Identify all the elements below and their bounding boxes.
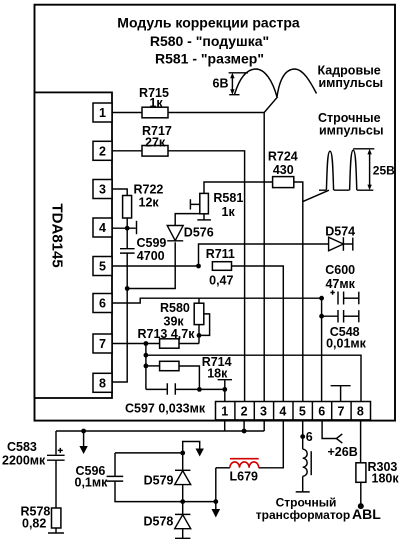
junction L679 left leg bbox=[213, 499, 218, 504]
wire R303 to ABL bbox=[360, 482, 362, 506]
wire connector 1-3 bottom bus bbox=[56, 421, 264, 432]
svg-text:430: 430 bbox=[273, 163, 294, 177]
pin 3 bbox=[93, 180, 112, 199]
wire bus to connector 8 bbox=[146, 355, 361, 401]
svg-text:27к: 27к bbox=[145, 135, 166, 149]
wire left bus column bbox=[145, 344, 147, 390]
wire D579 to D578 bbox=[182, 502, 184, 515]
wire pin3 to R722 bbox=[112, 189, 127, 196]
svg-text:8: 8 bbox=[99, 377, 106, 391]
pin 2 bbox=[93, 141, 112, 160]
ground under R581 bbox=[197, 219, 211, 221]
junction bus column dots bbox=[144, 341, 149, 346]
terminal over connector 7 bbox=[331, 386, 351, 402]
wire bus to R714 bbox=[146, 365, 160, 367]
svg-text:D574: D574 bbox=[325, 225, 355, 239]
wire C596/D579 top node bbox=[115, 452, 183, 454]
wire connector 5 to transformer bbox=[302, 421, 304, 450]
arrow to deflection mid bbox=[183, 442, 200, 453]
svg-text:4700: 4700 bbox=[137, 249, 165, 263]
resistor R711 bbox=[206, 247, 235, 287]
line pulses waveform bbox=[318, 111, 395, 190]
junction R714/C597 bbox=[197, 387, 202, 392]
svg-text:2: 2 bbox=[99, 145, 106, 159]
svg-text:1к: 1к bbox=[149, 96, 163, 110]
svg-text:6В: 6В bbox=[213, 77, 229, 91]
IC U1 TDA8145 bbox=[35, 92, 113, 398]
capacitor C599 bbox=[120, 236, 166, 263]
wire pin4 bbox=[112, 227, 136, 229]
resistor R715 bbox=[139, 86, 169, 118]
junction C600 node bbox=[319, 296, 324, 301]
connector X1 row bbox=[216, 402, 371, 420]
junction transformer pin6 bbox=[300, 434, 305, 439]
resistor R713 bbox=[138, 327, 196, 348]
inductor L679 bbox=[216, 459, 259, 484]
wire R713 right to R580 bbox=[179, 343, 199, 345]
svg-text:импульсы: импульсы bbox=[319, 124, 384, 138]
junction R580 wiper bbox=[197, 333, 202, 338]
wire R714 right down to C597 wire bbox=[179, 366, 199, 389]
wire R580 bottom to R713 bbox=[198, 325, 200, 344]
wire R722 bottom / C599 top lead bbox=[126, 218, 128, 248]
svg-text:TDA8145: TDA8145 bbox=[49, 204, 66, 268]
frame pulses waveform bbox=[213, 64, 384, 98]
capacitor C596 bbox=[75, 453, 124, 490]
pointer to frame waveform bbox=[264, 97, 277, 113]
resistor R724 bbox=[268, 150, 298, 188]
svg-text:R581 - "размер": R581 - "размер" bbox=[155, 51, 264, 67]
svg-text:+26В: +26В bbox=[328, 445, 358, 459]
trimmer R580 bbox=[160, 298, 210, 335]
junction pin4/R722 bbox=[125, 226, 130, 231]
svg-text:7: 7 bbox=[99, 337, 106, 351]
arrow to deflection right bbox=[215, 502, 217, 510]
svg-text:1к: 1к bbox=[222, 205, 236, 219]
pin 5 bbox=[93, 257, 112, 276]
junction D579/D578 bbox=[180, 499, 185, 504]
terminal over connector 1 bbox=[218, 380, 232, 402]
resistor R303 bbox=[356, 460, 399, 486]
wire pin5 to R711 node bbox=[112, 265, 199, 267]
arrow to deflection left bbox=[83, 431, 85, 447]
wire node down to pin8 bbox=[112, 289, 127, 383]
svg-text:R580: R580 bbox=[160, 301, 190, 315]
wire C600 node down to connector 6 bbox=[321, 298, 323, 401]
wire C596 bottom to D-node bbox=[115, 481, 216, 502]
svg-text:5: 5 bbox=[99, 260, 106, 274]
capacitor C548 bbox=[322, 310, 367, 351]
resistor R722 bbox=[123, 183, 164, 219]
junction pin5 node bbox=[196, 264, 201, 269]
wire connector 8 to R303 bbox=[360, 421, 362, 463]
svg-text:R581: R581 bbox=[213, 191, 243, 205]
svg-text:180к: 180к bbox=[372, 472, 400, 486]
svg-text:D576: D576 bbox=[184, 226, 214, 240]
svg-text:2: 2 bbox=[241, 404, 248, 418]
svg-text:6: 6 bbox=[99, 297, 106, 311]
diode D578 bbox=[144, 514, 191, 538]
svg-text:0,01мк: 0,01мк bbox=[326, 337, 367, 351]
svg-text:1: 1 bbox=[221, 404, 228, 418]
junction bottom bus bbox=[242, 429, 247, 434]
terminal bar after D574 bbox=[352, 238, 354, 251]
module boundary bbox=[35, 5, 396, 421]
pin 6 bbox=[93, 294, 112, 313]
svg-text:импульсы: импульсы bbox=[319, 76, 384, 90]
svg-text:18к: 18к bbox=[207, 367, 228, 381]
svg-text:D578: D578 bbox=[144, 515, 174, 529]
junction C599/D576/pin8 bbox=[125, 286, 130, 291]
svg-text:C600: C600 bbox=[325, 263, 355, 277]
pointer to line pulses waveform bbox=[303, 190, 329, 201]
svg-text:2200мк: 2200мк bbox=[2, 454, 46, 468]
pin 7 bbox=[93, 334, 112, 353]
svg-text:трансформатор: трансформатор bbox=[256, 508, 350, 522]
svg-text:25В: 25В bbox=[373, 163, 395, 177]
ground under R578 bbox=[48, 528, 64, 533]
svg-text:8: 8 bbox=[357, 404, 364, 418]
svg-text:12к: 12к bbox=[139, 196, 160, 210]
wire pin7 to R713 bbox=[112, 343, 160, 345]
diode D574 bbox=[325, 225, 355, 251]
svg-text:6: 6 bbox=[318, 404, 325, 418]
svg-text:4: 4 bbox=[99, 221, 106, 235]
wire D576 anode to R581 bottom bbox=[175, 214, 204, 226]
svg-text:ABL: ABL bbox=[352, 506, 381, 522]
wire L679 left down bbox=[215, 468, 217, 502]
svg-text:C597 0,033мк: C597 0,033мк bbox=[125, 402, 206, 416]
wire R581 bottom to ground bbox=[203, 214, 205, 220]
svg-text:1: 1 bbox=[99, 106, 106, 120]
svg-text:C583: C583 bbox=[7, 440, 37, 454]
wire connector 4 to L679 bbox=[259, 421, 284, 468]
wire R581 top to R724 bbox=[204, 182, 273, 193]
wire C583 to R578 bbox=[55, 460, 57, 508]
svg-text:R722: R722 bbox=[134, 183, 164, 197]
connector +26V bbox=[322, 421, 358, 460]
wire node to D576 cathode bbox=[127, 242, 175, 288]
svg-text:R711: R711 bbox=[206, 247, 235, 261]
capacitor C600 bbox=[325, 263, 359, 305]
line transformer winding bbox=[256, 449, 350, 522]
svg-text:4: 4 bbox=[279, 404, 286, 418]
capacitor C597 bbox=[125, 383, 225, 415]
svg-text:47мк: 47мк bbox=[325, 277, 355, 291]
wire R724 to connector 5 bbox=[294, 182, 303, 402]
svg-text:D579: D579 bbox=[144, 474, 174, 488]
svg-text:0,1мк: 0,1мк bbox=[75, 476, 109, 490]
wire C599 bottom down to node bbox=[126, 253, 128, 288]
svg-text:7: 7 bbox=[338, 404, 345, 418]
svg-text:3: 3 bbox=[99, 183, 106, 197]
svg-text:0,82: 0,82 bbox=[22, 517, 46, 531]
resistor R717 bbox=[142, 124, 172, 156]
svg-text:3: 3 bbox=[260, 404, 267, 418]
resistor R578 bbox=[21, 505, 61, 531]
svg-text:Модуль коррекции растра: Модуль коррекции растра bbox=[117, 14, 300, 30]
svg-text:R713 4,7к: R713 4,7к bbox=[138, 327, 196, 341]
terminal ABL bbox=[358, 503, 364, 509]
svg-text:R580 - "подушка": R580 - "подушка" bbox=[150, 33, 269, 49]
wire pin6 to C600 node bbox=[112, 298, 322, 303]
pin 8 bbox=[93, 373, 112, 392]
wire pin2 to R717 bbox=[112, 150, 142, 152]
wire R711 to connector 4 bbox=[232, 266, 284, 402]
wire R717 to connector 2 bbox=[168, 151, 245, 402]
trimmer tap bar of R722 bbox=[136, 221, 138, 234]
pin 1 bbox=[93, 103, 112, 122]
junction C597/terminal bbox=[222, 387, 227, 392]
wire node up and right to D574 bbox=[199, 244, 353, 266]
trimmer R581 bbox=[190, 191, 243, 219]
junction C548 node bbox=[319, 314, 324, 319]
svg-text:5: 5 bbox=[299, 404, 306, 418]
resistor R714 bbox=[160, 355, 232, 381]
svg-text:0,47: 0,47 bbox=[209, 273, 233, 287]
wire R715 to node, down to connector 3 bbox=[168, 113, 264, 402]
diode D579 bbox=[144, 453, 191, 502]
svg-text:R724: R724 bbox=[268, 150, 298, 164]
wire pin1 to R715 bbox=[112, 112, 142, 114]
diode D576 bbox=[167, 226, 214, 241]
svg-text:6: 6 bbox=[306, 430, 313, 444]
junction D579 top bbox=[180, 451, 185, 456]
capacitor C583 bbox=[2, 431, 65, 468]
pin 4 bbox=[93, 218, 112, 237]
svg-text:L679: L679 bbox=[230, 470, 259, 484]
